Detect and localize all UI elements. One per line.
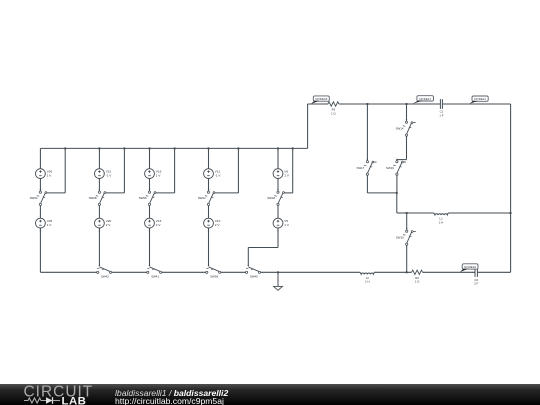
- svg-text:1 V: 1 V: [156, 174, 162, 178]
- svg-text:SW15: SW15: [396, 236, 404, 240]
- svg-text:2 V: 2 V: [215, 223, 221, 227]
- svg-text:1 Ω: 1 Ω: [331, 111, 335, 115]
- svg-text:1 H: 1 H: [365, 280, 369, 284]
- svg-text:SW42: SW42: [101, 275, 109, 279]
- svg-text:1 H: 1 H: [439, 220, 443, 224]
- svg-text:-1 V: -1 V: [215, 174, 222, 178]
- svg-text:SW40: SW40: [250, 275, 258, 279]
- svg-text:NODE18: NODE18: [315, 97, 327, 101]
- svg-text:SW06: SW06: [139, 196, 147, 200]
- svg-text:2 V: 2 V: [106, 223, 112, 227]
- svg-text:SW39: SW39: [210, 275, 218, 279]
- svg-text:2 F: 2 F: [474, 282, 478, 286]
- svg-text:SW18: SW18: [267, 196, 275, 200]
- svg-text:NODE10: NODE10: [464, 265, 476, 269]
- svg-text:SW41: SW41: [151, 275, 159, 279]
- svg-text:NODE11: NODE11: [474, 97, 486, 101]
- svg-text:1 Ω: 1 Ω: [415, 280, 419, 284]
- svg-text:1 V: 1 V: [47, 223, 53, 227]
- svg-text:1 V: 1 V: [284, 223, 290, 227]
- svg-text:SW08: SW08: [89, 196, 97, 200]
- svg-text:SW14: SW14: [396, 127, 404, 131]
- svg-text:NODE17: NODE17: [419, 97, 431, 101]
- svg-text:-1 V: -1 V: [106, 174, 113, 178]
- svg-text:2 V: 2 V: [156, 223, 162, 227]
- svg-text:1 V: 1 V: [47, 174, 53, 178]
- svg-text:SW22: SW22: [198, 196, 206, 200]
- svg-text:SW16: SW16: [386, 166, 394, 170]
- svg-text:1 F: 1 F: [439, 113, 443, 117]
- svg-text:SW04: SW04: [30, 196, 38, 200]
- svg-text:SW17: SW17: [357, 166, 365, 170]
- svg-text:1 V: 1 V: [284, 174, 290, 178]
- svg-text:LAB: LAB: [62, 395, 87, 405]
